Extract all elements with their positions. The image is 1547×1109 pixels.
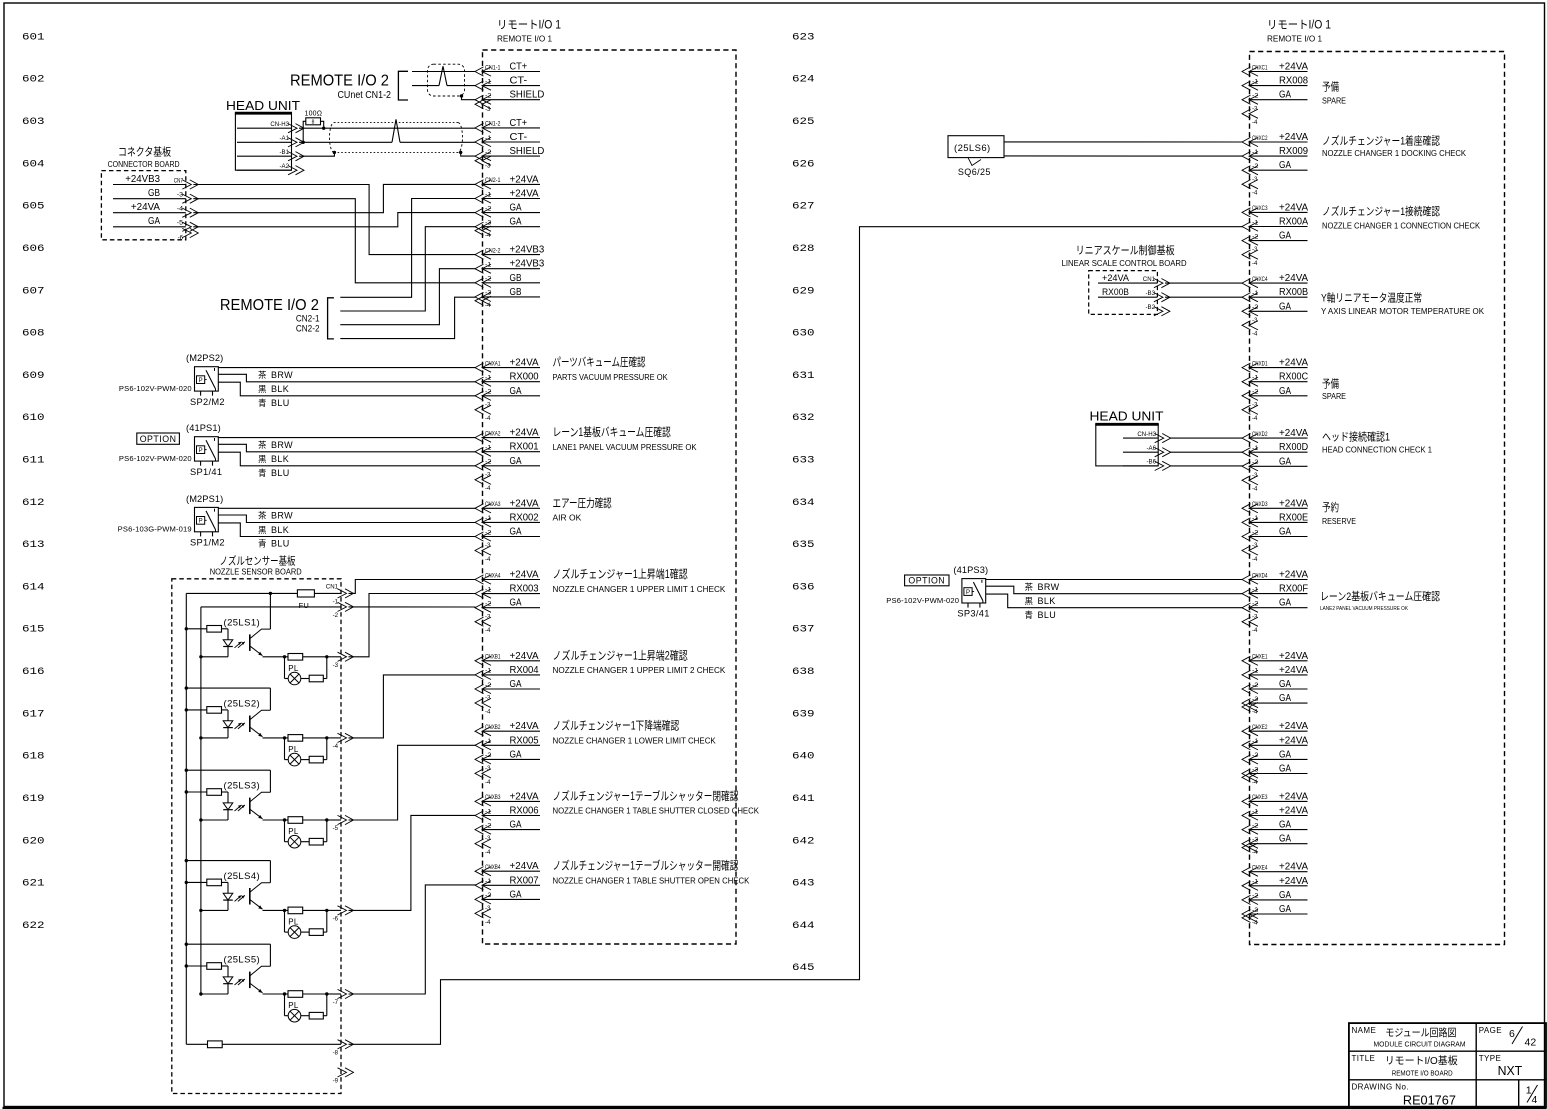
svg-text:-1: -1	[485, 808, 492, 815]
connector CN-H3 pins (right head unit)	[1123, 431, 1171, 471]
svg-text:TITLE: TITLE	[1352, 1054, 1376, 1063]
svg-text:OPTION: OPTION	[908, 576, 945, 586]
svg-text:(25LS1): (25LS1)	[224, 617, 261, 628]
connector CNXB2	[475, 721, 540, 786]
svg-text:ノズルチェンジャー1テーブルシャッター開確認: ノズルチェンジャー1テーブルシャッター開確認	[553, 859, 739, 873]
svg-text:CN2-2: CN2-2	[485, 247, 501, 254]
sensor M2PS1 pressure switch	[118, 494, 225, 548]
svg-text:茶: 茶	[258, 511, 267, 521]
svg-text:-B3: -B3	[1146, 290, 1156, 297]
svg-text:CN7: CN7	[174, 177, 184, 184]
svg-text:リモートI/O 1: リモートI/O 1	[497, 20, 561, 32]
svg-text:SHIELD: SHIELD	[510, 146, 545, 157]
svg-text:CN1-1: CN1-1	[485, 64, 501, 71]
connector CNXE2	[1242, 721, 1309, 786]
svg-text:NXT: NXT	[1498, 1063, 1523, 1078]
svg-text:-4: -4	[485, 232, 491, 239]
shield outline CN1-2 twisted pair	[330, 123, 463, 154]
svg-text:GA: GA	[1279, 904, 1291, 915]
svg-text:+24VB3: +24VB3	[510, 259, 545, 270]
svg-text:PS6-103G-PWM-019: PS6-103G-PWM-019	[118, 525, 192, 534]
svg-text:+24VA: +24VA	[1279, 132, 1309, 143]
svg-text:リニアスケール制御基板: リニアスケール制御基板	[1076, 243, 1175, 257]
svg-text:-2: -2	[1252, 93, 1259, 100]
connector CNXC2	[1242, 132, 1309, 197]
wire 25LS1 output to RX input	[349, 594, 476, 657]
fuse FU	[297, 590, 314, 610]
svg-text:GA: GA	[148, 216, 160, 227]
svg-text:-4: -4	[1252, 627, 1258, 634]
svg-text:-1: -1	[1252, 445, 1259, 452]
svg-text:BLU: BLU	[271, 398, 290, 408]
svg-text:-3: -3	[1252, 246, 1258, 253]
net label SPARE (CNXC1)	[1322, 81, 1346, 106]
svg-text:-8: -8	[333, 1050, 339, 1057]
svg-text:NOZZLE CHANGER 1 TABLE SHUTTER: NOZZLE CHANGER 1 TABLE SHUTTER OPEN CHEC…	[553, 877, 750, 886]
node REMOTE I/O 1 title (right)	[1267, 20, 1331, 44]
svg-text:-1: -1	[1252, 879, 1259, 886]
svg-text:レーン2基板バキューム圧確認: レーン2基板バキューム圧確認	[1320, 589, 1440, 603]
svg-text:-1: -1	[485, 262, 492, 269]
svg-text:+24VA: +24VA	[1279, 862, 1309, 873]
svg-text:616: 616	[22, 667, 45, 678]
svg-text:-2: -2	[1252, 233, 1259, 240]
wire -A1 to CN1-2 CT- with twist	[299, 119, 476, 142]
svg-text:GA: GA	[1279, 598, 1291, 609]
svg-text:627: 627	[792, 202, 815, 213]
svg-text:CNXA4: CNXA4	[485, 572, 501, 579]
svg-text:-2: -2	[1252, 304, 1259, 311]
right REMOTE I/O 1 board outline	[1250, 52, 1505, 945]
svg-text:-2: -2	[1252, 752, 1259, 759]
connector CNXA1	[475, 358, 540, 423]
net label HEAD CONNECTION CHECK 1	[1322, 430, 1433, 455]
svg-text:モジュール回路図: モジュール回路図	[1385, 1026, 1456, 1039]
bracket CN2-1 CN2-2	[328, 298, 334, 339]
svg-text:605: 605	[22, 202, 45, 213]
svg-text:RX00B: RX00B	[1279, 287, 1309, 298]
svg-text:CN-H3: CN-H3	[1137, 431, 1156, 438]
svg-text:606: 606	[22, 244, 45, 255]
svg-text:LINEAR SCALE CONTROL BOARD: LINEAR SCALE CONTROL BOARD	[1062, 259, 1187, 268]
svg-text:(25LS2): (25LS2)	[224, 698, 261, 709]
svg-text:NOZZLE CHANGER 1 LOWER LIMIT C: NOZZLE CHANGER 1 LOWER LIMIT CHECK	[553, 737, 717, 746]
svg-text:REMOTE I/O 1: REMOTE I/O 1	[1267, 35, 1322, 44]
svg-text:-4: -4	[1252, 486, 1258, 493]
svg-text:CNXC3: CNXC3	[1252, 205, 1268, 212]
connector CN-H3 pins (left head unit)	[237, 121, 304, 175]
component HEAD UNIT (right)	[1090, 408, 1164, 466]
svg-text:-2: -2	[485, 752, 492, 759]
svg-text:(M2PS1): (M2PS1)	[186, 494, 223, 504]
svg-text:-2: -2	[1252, 893, 1259, 900]
net label Y AXIS LINEAR MOTOR TEMPERATURE OK	[1321, 291, 1485, 316]
svg-text:CT+: CT+	[510, 118, 528, 129]
svg-text:GA: GA	[510, 203, 522, 214]
svg-text:GA: GA	[1279, 890, 1291, 901]
svg-text:エアー圧力確認: エアー圧力確認	[553, 496, 613, 510]
svg-text:-3: -3	[1252, 766, 1259, 773]
svg-text:BLU: BLU	[271, 468, 290, 478]
svg-text:-3: -3	[485, 613, 491, 620]
svg-text:631: 631	[792, 371, 815, 382]
svg-text:NOZZLE CHANGER 1 UPPER LIMIT 1: NOZZLE CHANGER 1 UPPER LIMIT 1 CHECK	[553, 585, 726, 594]
svg-text:CNXE3: CNXE3	[1252, 794, 1268, 801]
svg-text:-2: -2	[1252, 459, 1259, 466]
svg-text:-B2: -B2	[1146, 304, 1156, 311]
svg-text:ノズルチェンジャー1着座確認: ノズルチェンジャー1着座確認	[1322, 133, 1440, 147]
svg-text:パーツバキューム圧確認: パーツバキューム圧確認	[553, 355, 646, 369]
svg-text:-6: -6	[178, 235, 184, 242]
svg-text:GA: GA	[510, 527, 522, 538]
svg-text:REMOTE I/O BOARD: REMOTE I/O BOARD	[1392, 1069, 1453, 1078]
svg-text:+24VA: +24VA	[510, 174, 540, 185]
svg-text:-2: -2	[485, 682, 492, 689]
svg-text:-3: -3	[1252, 837, 1259, 844]
connector CNXB1	[475, 651, 540, 716]
svg-text:+24VA: +24VA	[510, 721, 540, 732]
svg-text:PS6-102V-PWM-020: PS6-102V-PWM-020	[119, 384, 192, 393]
svg-text:GA: GA	[510, 889, 522, 900]
svg-text:青: 青	[1025, 610, 1034, 620]
svg-text:BLU: BLU	[271, 539, 290, 549]
svg-text:リモートI/O 1: リモートI/O 1	[1267, 20, 1331, 32]
svg-text:GA: GA	[510, 386, 522, 397]
svg-text:-6: -6	[333, 916, 339, 923]
svg-text:-1: -1	[1252, 738, 1259, 745]
svg-text:LANE1 PANEL VACUUM PRESSURE OK: LANE1 PANEL VACUUM PRESSURE OK	[553, 443, 698, 452]
svg-text:+24VA: +24VA	[1279, 273, 1309, 284]
svg-text:RX00C: RX00C	[1279, 372, 1308, 383]
svg-text:TYPE: TYPE	[1479, 1054, 1502, 1063]
svg-text:-5: -5	[177, 220, 184, 227]
svg-text:CNXE2: CNXE2	[1252, 724, 1268, 731]
svg-text:GA: GA	[1279, 679, 1291, 690]
svg-text:(25LS3): (25LS3)	[224, 781, 261, 792]
optocoupler 25LS4	[185, 859, 341, 939]
svg-text:NOZZLE CHANGER 1 CONNECTION CH: NOZZLE CHANGER 1 CONNECTION CHECK	[1322, 222, 1481, 231]
wire linear scale +24VA to CNXC4	[1165, 282, 1243, 284]
svg-text:GA: GA	[510, 749, 522, 760]
svg-text:GA: GA	[510, 217, 522, 228]
svg-text:CNXE4: CNXE4	[1252, 865, 1268, 872]
svg-text:-3: -3	[485, 471, 491, 478]
svg-text:RX006: RX006	[510, 806, 540, 817]
svg-text:-3: -3	[485, 290, 492, 297]
wire linear scale RX00B to CNXC4	[1165, 296, 1243, 298]
svg-text:BRW: BRW	[271, 440, 293, 450]
svg-text:+24VA: +24VA	[1279, 62, 1309, 73]
svg-text:黒: 黒	[258, 525, 267, 535]
net label AIR OK	[553, 496, 613, 523]
svg-text:+24VA: +24VA	[510, 570, 540, 581]
svg-text:635: 635	[792, 540, 815, 551]
svg-text:-4: -4	[1252, 119, 1258, 126]
svg-text:+24VA: +24VA	[1279, 876, 1309, 887]
svg-text:620: 620	[22, 836, 45, 847]
svg-text:GA: GA	[510, 820, 522, 831]
svg-text:+24VA: +24VA	[1279, 498, 1309, 509]
svg-text:RX001: RX001	[510, 442, 539, 453]
svg-text:SP1/41: SP1/41	[190, 467, 222, 477]
svg-text:GA: GA	[1279, 301, 1291, 312]
connector CN1 pin -3	[333, 652, 354, 669]
svg-text:-3: -3	[1252, 105, 1258, 112]
wire remote2 to CN2-2 -1	[340, 269, 475, 325]
wires M2PS1 to CNXA3	[218, 508, 475, 548]
svg-text:-2: -2	[485, 149, 492, 156]
svg-text:CNXB4: CNXB4	[485, 864, 501, 871]
wire 25LS3 output to RX input	[349, 745, 476, 820]
svg-text:-4: -4	[485, 627, 491, 634]
svg-text:ノズルチェンジャー1テーブルシャッター閉確認: ノズルチェンジャー1テーブルシャッター閉確認	[553, 789, 739, 803]
option box OPTION (41PS1)	[137, 433, 180, 444]
svg-text:-3: -3	[485, 905, 491, 912]
svg-text:PL: PL	[288, 745, 299, 754]
svg-text:-3: -3	[333, 662, 339, 669]
wire CT+ to CN1-1	[412, 71, 476, 73]
svg-text:GA: GA	[510, 598, 522, 609]
svg-text:638: 638	[792, 667, 815, 678]
svg-text:641: 641	[792, 794, 815, 805]
connector CN2-2	[475, 245, 545, 310]
connector CN1 (linear scale board)	[1098, 272, 1170, 316]
sensor 41PS3 pressure switch	[886, 565, 989, 619]
svg-text:100Ω: 100Ω	[305, 111, 323, 118]
connector CN1 pin -7	[333, 989, 354, 1006]
svg-text:PAGE: PAGE	[1479, 1026, 1502, 1035]
svg-text:(25LS4): (25LS4)	[224, 871, 261, 882]
svg-text:633: 633	[792, 456, 815, 467]
wire shield drain to CN1-1 SHIELD	[462, 96, 476, 100]
svg-text:611: 611	[22, 456, 45, 467]
svg-text:-5: -5	[333, 825, 339, 832]
svg-text:639: 639	[792, 709, 815, 720]
svg-text:-1: -1	[485, 515, 492, 522]
svg-text:624: 624	[792, 75, 815, 86]
svg-text:GA: GA	[1279, 527, 1291, 538]
net label PARTS VACUUM PRESSURE OK	[553, 355, 669, 382]
svg-text:-4: -4	[1252, 556, 1258, 563]
svg-text:Y AXIS LINEAR MOTOR TEMPERATUR: Y AXIS LINEAR MOTOR TEMPERATURE OK	[1321, 307, 1485, 316]
svg-text:-4: -4	[1252, 919, 1258, 926]
svg-text:642: 642	[792, 836, 815, 847]
svg-text:予備: 予備	[1322, 378, 1339, 391]
connector CN7 pins (connector board)	[113, 174, 198, 242]
svg-text:-1: -1	[485, 135, 492, 142]
sensor 25LS6 docking switch	[948, 136, 1004, 177]
svg-text:-4: -4	[485, 849, 491, 856]
svg-text:-9: -9	[333, 1078, 339, 1085]
svg-text:CNXD1: CNXD1	[1252, 360, 1268, 367]
svg-text:SPARE: SPARE	[1322, 392, 1346, 401]
connector CNXD3	[1242, 498, 1309, 563]
connector CNXC4	[1242, 273, 1309, 338]
line numbers left column	[22, 32, 45, 932]
svg-text:622: 622	[22, 921, 45, 932]
svg-text:PL: PL	[288, 664, 299, 673]
svg-text:643: 643	[792, 879, 815, 890]
connector CN1-1	[475, 62, 544, 114]
svg-text:CNXA3: CNXA3	[485, 501, 501, 508]
svg-text:RE01767: RE01767	[1403, 1094, 1456, 1108]
svg-text:MODULE CIRCUIT DIAGRAM: MODULE CIRCUIT DIAGRAM	[1374, 1039, 1466, 1048]
svg-text:(41PS3): (41PS3)	[953, 565, 988, 575]
svg-text:-1: -1	[485, 586, 492, 593]
svg-text:+24VA: +24VA	[131, 202, 161, 213]
svg-text:ノズルセンサー基板: ノズルセンサー基板	[220, 553, 296, 567]
svg-text:613: 613	[22, 540, 45, 551]
node REMOTE I/O 2 (CUnet CN1-2) label	[290, 73, 391, 102]
node REMOTE I/O 1 title (left)	[497, 20, 561, 44]
svg-text:-4: -4	[177, 206, 184, 213]
wire +24VA to CN2-1 pin1	[193, 184, 475, 212]
svg-text:レーン1基板バキューム圧確認: レーン1基板バキューム圧確認	[553, 425, 672, 439]
svg-text:+24VB3: +24VB3	[510, 245, 545, 256]
svg-text:-3: -3	[1252, 401, 1258, 408]
svg-text:RX00B: RX00B	[1102, 286, 1129, 297]
svg-text:黒: 黒	[258, 454, 267, 464]
svg-text:リモートI/O基板: リモートI/O基板	[1385, 1054, 1458, 1067]
svg-text:-1: -1	[485, 375, 492, 382]
svg-text:CNXC2: CNXC2	[1252, 135, 1268, 142]
connector CNXE4	[1242, 862, 1309, 927]
rail GA (nozzle board)	[200, 607, 202, 994]
svg-text:+24VA: +24VA	[510, 861, 540, 872]
svg-text:-2: -2	[1252, 163, 1259, 170]
net label SPARE (CNXD1)	[1322, 378, 1346, 401]
svg-text:618: 618	[22, 752, 45, 763]
svg-text:-3: -3	[1252, 696, 1259, 703]
svg-text:GA: GA	[1279, 386, 1291, 397]
svg-text:602: 602	[22, 75, 45, 86]
svg-text:RX004: RX004	[510, 665, 540, 676]
svg-text:GB: GB	[510, 287, 522, 298]
svg-text:BLK: BLK	[271, 384, 289, 394]
svg-text:610: 610	[22, 413, 45, 424]
svg-text:CN1: CN1	[326, 584, 339, 591]
connector CN1 pin -1 (GA)	[333, 598, 354, 619]
svg-text:-1: -1	[1252, 668, 1259, 675]
svg-text:-1: -1	[1252, 290, 1259, 297]
wire remote2 to CN2-1 -1	[340, 199, 475, 298]
svg-text:+24VA: +24VA	[1279, 651, 1309, 662]
svg-text:636: 636	[792, 582, 815, 593]
svg-text:NOZZLE CHANGER 1 DOCKING CHECK: NOZZLE CHANGER 1 DOCKING CHECK	[1322, 149, 1467, 158]
svg-text:GA: GA	[1279, 693, 1291, 704]
svg-text:青: 青	[258, 398, 267, 408]
svg-text:-1: -1	[485, 78, 492, 85]
svg-text:ノズルチェンジャー1上昇端1確認: ノズルチェンジャー1上昇端1確認	[553, 567, 689, 581]
svg-text:BLK: BLK	[271, 525, 289, 535]
svg-text:-3: -3	[177, 192, 184, 199]
svg-text:SP2/M2: SP2/M2	[190, 397, 225, 407]
svg-text:+24VA: +24VA	[510, 791, 540, 802]
svg-text:-2: -2	[485, 529, 492, 536]
option box OPTION (41PS3)	[905, 575, 949, 586]
svg-text:PS6-102V-PWM-020: PS6-102V-PWM-020	[119, 454, 192, 463]
svg-text:+24VB3: +24VB3	[125, 174, 160, 185]
wire GA rail to CNXA4 GA	[201, 606, 476, 608]
svg-text:RX009: RX009	[1279, 146, 1308, 157]
net label NOZZLE CHANGER 1 UPPER LIMIT 1 CHECK	[553, 567, 726, 594]
svg-text:REMOTE I/O 2: REMOTE I/O 2	[220, 297, 319, 314]
svg-text:-4: -4	[485, 302, 491, 309]
svg-text:634: 634	[792, 498, 815, 509]
connector CNXD2	[1242, 428, 1309, 493]
wire shield drain to CN1-2 SHIELD	[461, 152, 476, 156]
svg-text:BLU: BLU	[1038, 610, 1057, 620]
svg-text:CNXD4: CNXD4	[1252, 572, 1268, 579]
svg-text:-3: -3	[485, 835, 491, 842]
svg-text:632: 632	[792, 413, 815, 424]
svg-text:CNXA1: CNXA1	[485, 360, 501, 367]
svg-text:RESERVE: RESERVE	[1322, 517, 1356, 526]
wire 25LS5 output to RX input	[349, 885, 476, 994]
connector CN1 pin -5	[333, 815, 354, 832]
wire GA to CN2-1 -2	[193, 213, 475, 227]
wire connection check to CNXC3 RX00A	[349, 227, 1243, 1045]
svg-text:-4: -4	[1252, 190, 1258, 197]
svg-text:GA: GA	[1279, 90, 1291, 101]
rail +24V (nozzle board)	[185, 593, 187, 1044]
svg-text:ノズルチェンジャー1接続確認: ノズルチェンジャー1接続確認	[1322, 204, 1440, 218]
svg-text:PARTS VACUUM PRESSURE OK: PARTS VACUUM PRESSURE OK	[553, 373, 669, 382]
net label NOZZLE CHANGER 1 TABLE SHUTTER OPEN CHECK	[553, 859, 750, 886]
svg-text:-2: -2	[485, 389, 492, 396]
svg-text:-7: -7	[333, 999, 339, 1006]
svg-text:P: P	[199, 519, 203, 525]
svg-text:CNXB3: CNXB3	[485, 794, 501, 801]
svg-text:CNXD3: CNXD3	[1252, 501, 1268, 508]
svg-text:-2: -2	[485, 205, 492, 212]
svg-text:626: 626	[792, 159, 815, 170]
svg-text:+24VA: +24VA	[510, 428, 540, 439]
svg-text:黒: 黒	[1025, 596, 1034, 606]
svg-text:SP1/M2: SP1/M2	[190, 538, 225, 548]
svg-text:+24VA: +24VA	[1279, 735, 1309, 746]
svg-text:-3: -3	[1252, 907, 1259, 914]
connector CNXA4	[475, 570, 540, 635]
wire 25LS6 to RX009	[1004, 155, 1243, 157]
wires 41PS3 to CNXD4	[986, 580, 1243, 620]
svg-text:-3: -3	[1252, 317, 1258, 324]
svg-text:-4: -4	[485, 708, 491, 715]
net label NOZZLE CHANGER 1 CONNECTION CHECK	[1322, 204, 1481, 231]
svg-text:645: 645	[792, 963, 815, 974]
wire CT- to CN1-1 with twist	[412, 66, 476, 85]
svg-text:-4: -4	[1252, 708, 1258, 715]
wire 25LS2 output to RX input	[349, 675, 476, 738]
svg-text:GB: GB	[148, 188, 160, 199]
svg-text:+24VA: +24VA	[510, 651, 540, 662]
svg-text:CNXB1: CNXB1	[485, 654, 501, 661]
svg-text:-4: -4	[1252, 260, 1258, 267]
shield outline CN1-1 twisted pair	[428, 64, 465, 98]
svg-text:609: 609	[22, 371, 45, 382]
svg-text:GA: GA	[1279, 820, 1291, 831]
svg-text:608: 608	[22, 329, 45, 340]
svg-text:+24VA: +24VA	[1279, 665, 1309, 676]
svg-text:HEAD UNIT: HEAD UNIT	[1090, 408, 1164, 423]
svg-text:612: 612	[22, 498, 45, 509]
svg-text:+24VA: +24VA	[1279, 806, 1309, 817]
svg-text:HEAD CONNECTION CHECK 1: HEAD CONNECTION CHECK 1	[1322, 446, 1433, 455]
svg-text:+24VA: +24VA	[1279, 202, 1309, 213]
svg-text:黒: 黒	[258, 384, 267, 394]
svg-text:-1: -1	[485, 668, 492, 675]
svg-text:-4: -4	[485, 415, 491, 422]
